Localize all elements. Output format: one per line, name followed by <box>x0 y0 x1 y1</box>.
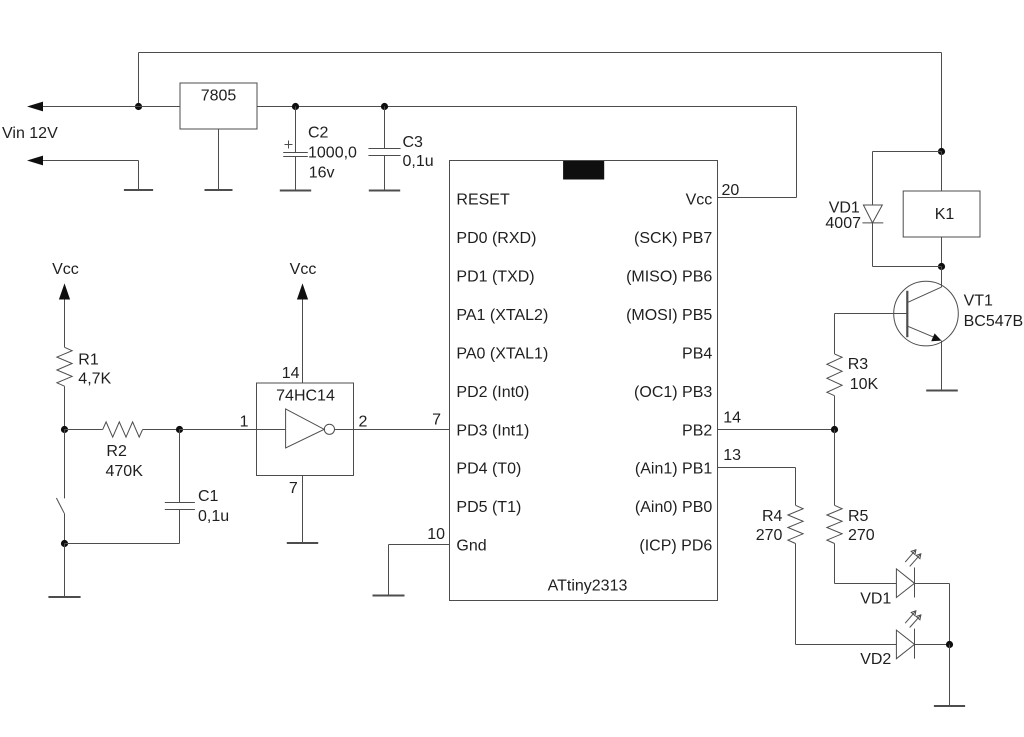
pin 7 label 74HC14 <box>289 480 298 497</box>
svg-text:VD1: VD1 <box>829 200 860 217</box>
wire relay top to K1 <box>941 152 943 192</box>
svg-text:PB2: PB2 <box>682 422 712 439</box>
node 12V input junction <box>135 103 142 110</box>
Vin arrow lower (return) <box>27 156 139 190</box>
svg-text:(SCK) PB7: (SCK) PB7 <box>634 230 712 247</box>
wire emitter to ground <box>941 341 943 391</box>
label C2 value <box>308 125 357 182</box>
resistor R1 <box>57 347 72 386</box>
wire PB1 pin 13 <box>718 468 796 506</box>
svg-text:Vcc: Vcc <box>686 192 713 209</box>
svg-text:(MISO) PB6: (MISO) PB6 <box>626 268 712 285</box>
svg-text:(Ain1) PB1: (Ain1) PB1 <box>635 461 712 478</box>
label R2 470K <box>106 443 144 480</box>
wire collector <box>908 267 942 303</box>
node C2 junction <box>292 103 299 110</box>
svg-text:C2: C2 <box>308 125 329 142</box>
svg-text:10K: 10K <box>850 376 879 393</box>
svg-text:C1: C1 <box>198 488 219 505</box>
svg-text:14: 14 <box>282 365 300 382</box>
node collector <box>938 263 945 270</box>
wire inverter input <box>180 429 286 431</box>
svg-text:PD3 (Int1): PD3 (Int1) <box>456 422 529 439</box>
label R4 270 <box>756 508 783 544</box>
svg-text:4,7K: 4,7K <box>78 371 111 388</box>
op-amp U1 inverter triangle <box>286 409 335 448</box>
node relay top <box>938 148 945 155</box>
pin 14 label <box>723 410 741 427</box>
svg-text:PA0 (XTAL1): PA0 (XTAL1) <box>456 345 548 362</box>
svg-text:1000,0: 1000,0 <box>308 145 357 162</box>
relay K1 <box>903 191 980 237</box>
svg-text:VD2: VD2 <box>860 651 891 668</box>
svg-text:R2: R2 <box>106 443 127 460</box>
svg-text:20: 20 <box>722 182 740 199</box>
wire PB2 node to R5 <box>834 430 836 506</box>
svg-text:Vcc: Vcc <box>290 261 317 278</box>
wire R5 to LED VD1 <box>835 544 897 584</box>
pin 14 label 74HC14 <box>282 365 300 382</box>
svg-text:R4: R4 <box>762 508 783 525</box>
wire node to R2 <box>65 429 103 431</box>
node R2/C1/inverter <box>176 426 183 433</box>
node switch/C1 bottom <box>61 540 68 547</box>
ground C2 <box>280 190 311 192</box>
wire R2 to node <box>143 429 180 431</box>
svg-text:7805: 7805 <box>201 88 237 105</box>
svg-text:7: 7 <box>432 412 441 429</box>
ground mcu <box>373 595 405 597</box>
wire PB2 pin 14 <box>718 429 835 431</box>
label R3 10K <box>848 356 879 393</box>
inverter U1 74HC14 box <box>257 383 354 476</box>
pin 10 label <box>427 526 445 543</box>
led VD2 <box>896 629 914 659</box>
resistor R2 <box>103 422 143 437</box>
wire R4 to LED VD2 <box>796 544 897 645</box>
wire diode branch top <box>873 152 942 206</box>
svg-text:PD4 (T0): PD4 (T0) <box>456 461 521 478</box>
mcu pin labels left <box>456 192 548 555</box>
svg-text:74HC14: 74HC14 <box>276 388 335 405</box>
svg-text:PA1 (XTAL2): PA1 (XTAL2) <box>456 307 548 324</box>
svg-text:(OC1) PB3: (OC1) PB3 <box>634 384 712 401</box>
switch S1 blade <box>56 498 64 513</box>
ground 74HC14 <box>287 542 318 544</box>
svg-text:PD1 (TXD): PD1 (TXD) <box>456 268 534 285</box>
svg-text:0,1u: 0,1u <box>403 153 434 170</box>
label VD1 4007 <box>825 200 861 233</box>
pin 1 label <box>240 414 249 431</box>
led VD1 <box>896 568 914 598</box>
svg-text:7: 7 <box>289 480 298 497</box>
label Vin 12V <box>2 125 58 142</box>
label Vcc left <box>52 261 79 278</box>
resistor R4 <box>788 505 803 543</box>
svg-text:270: 270 <box>756 527 783 544</box>
svg-text:PB4: PB4 <box>682 345 712 362</box>
capacitor C1 <box>165 430 195 510</box>
svg-text:VD1: VD1 <box>860 590 891 607</box>
label led VD2 <box>860 651 891 668</box>
wire base to R3 <box>834 314 836 354</box>
svg-text:13: 13 <box>723 447 741 464</box>
svg-text:4007: 4007 <box>825 215 861 232</box>
mcu U3 ATtiny2313 box <box>450 161 718 601</box>
node C3 junction <box>381 103 388 110</box>
svg-text:R5: R5 <box>848 508 869 525</box>
svg-text:270: 270 <box>848 527 875 544</box>
wire 5V rail <box>257 107 797 198</box>
ground VT1 <box>926 390 958 392</box>
svg-text:PD2 (Int0): PD2 (Int0) <box>456 384 529 401</box>
svg-text:PD0 (RXD): PD0 (RXD) <box>456 230 536 247</box>
svg-text:10: 10 <box>427 526 445 543</box>
mcu notch mark <box>563 161 604 180</box>
wire base <box>835 313 908 315</box>
node led cathodes <box>946 641 953 648</box>
ground leds <box>934 705 965 707</box>
wire inverter output <box>335 429 450 431</box>
wire VD2 cathode <box>915 644 950 646</box>
svg-text:BC547B: BC547B <box>964 313 1024 330</box>
capacitor C2 <box>283 107 308 191</box>
svg-text:K1: K1 <box>935 206 955 223</box>
wire K1 to collector node <box>941 237 943 267</box>
wire to switch ground <box>64 544 66 598</box>
label C1 value <box>198 488 229 525</box>
svg-text:14: 14 <box>723 410 741 427</box>
svg-text:1: 1 <box>240 414 249 431</box>
svg-text:470K: 470K <box>106 463 144 480</box>
wire switch lower contact <box>64 513 66 543</box>
svg-text:Vcc: Vcc <box>52 261 79 278</box>
wire R3 to PB2 node <box>834 396 836 430</box>
regulator U2 7805 <box>180 83 257 129</box>
svg-text:(MOSI) PB5: (MOSI) PB5 <box>626 307 712 324</box>
ground switch <box>48 596 80 598</box>
pin 2 label <box>359 414 368 431</box>
capacitor C3 <box>368 107 400 191</box>
label VT1 BC547B <box>964 293 1024 331</box>
pin 20 label <box>722 182 740 199</box>
svg-text:2: 2 <box>359 414 368 431</box>
svg-text:(Ain0) PB0: (Ain0) PB0 <box>635 499 712 516</box>
wire diode branch bottom <box>873 223 942 267</box>
svg-text:Gnd: Gnd <box>456 538 486 555</box>
wire Vcc to pin 14 <box>302 300 304 384</box>
svg-text:R3: R3 <box>848 356 869 373</box>
wire VD1 cathode <box>915 584 950 645</box>
label ATtiny2313 <box>548 578 628 595</box>
svg-text:ATtiny2313: ATtiny2313 <box>548 578 628 595</box>
pin 13 label <box>723 447 741 464</box>
svg-text:(ICP) PD6: (ICP) PD6 <box>639 538 712 555</box>
svg-text:VT1: VT1 <box>964 293 993 310</box>
led VD1 light arrows <box>905 550 921 567</box>
label R5 270 <box>848 508 875 544</box>
label C3 value <box>403 134 434 170</box>
transistor VT1 BC547B <box>894 281 959 346</box>
wire C1 bottom <box>65 510 180 544</box>
svg-text:PD5 (T1): PD5 (T1) <box>456 499 521 516</box>
node R1/R2/S1 <box>61 426 68 433</box>
wire 7805 gnd pin <box>218 129 220 190</box>
wire top 12V rail <box>139 53 942 152</box>
wire switch upper contact <box>64 430 66 499</box>
label R1 4,7K <box>78 352 111 388</box>
wire Vcc to R1 <box>64 300 66 348</box>
led VD2 light arrows <box>905 611 921 628</box>
node PB2 <box>831 426 838 433</box>
svg-text:16v: 16v <box>309 165 335 182</box>
ground C3 <box>369 190 400 192</box>
svg-text:C3: C3 <box>403 134 424 151</box>
wire pin 7 to ground <box>302 476 304 544</box>
svg-text:Vin 12V: Vin 12V <box>2 125 58 142</box>
diode VD1 1N4007 <box>862 205 883 223</box>
resistor R3 <box>827 354 842 396</box>
wire led ground <box>949 645 951 707</box>
wire R1 to node <box>64 386 66 429</box>
label Vcc inverter <box>290 261 317 278</box>
wire Gnd pin 10 <box>389 545 450 596</box>
Vin arrow upper <box>27 102 180 112</box>
pin 7 label at IC <box>432 412 441 429</box>
ground Vin return <box>124 189 153 191</box>
resistor R5 <box>827 505 842 543</box>
ground 7805 <box>205 189 233 191</box>
power Vcc arrow left <box>59 283 70 299</box>
svg-text:0,1u: 0,1u <box>198 508 229 525</box>
svg-text:R1: R1 <box>78 352 99 369</box>
power Vcc arrow inverter <box>297 283 308 299</box>
svg-text:RESET: RESET <box>456 192 510 209</box>
mcu pin labels right <box>626 192 712 555</box>
label led VD1 <box>860 590 891 607</box>
